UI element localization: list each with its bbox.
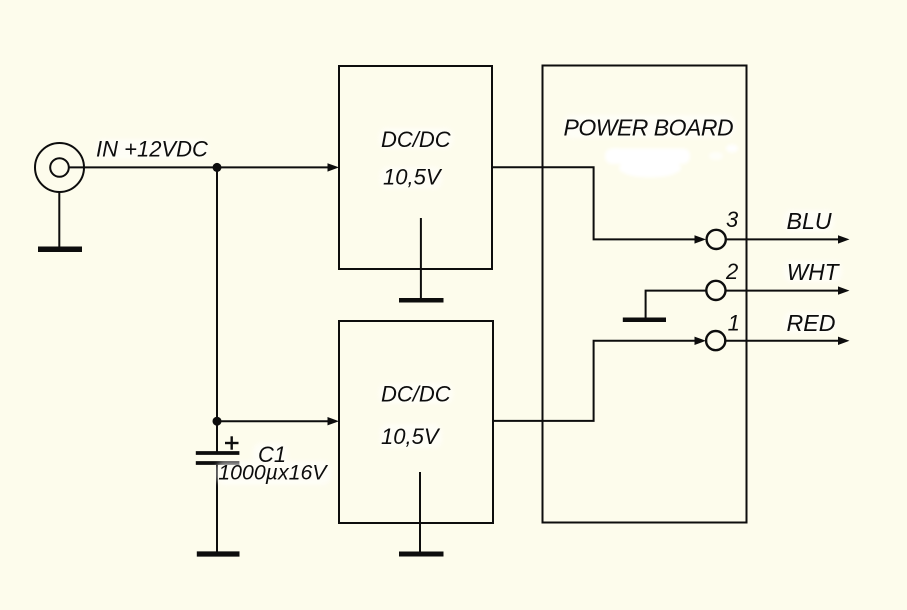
svg-text:BLU: BLU: [787, 208, 832, 234]
svg-text:10,5V: 10,5V: [383, 165, 443, 190]
svg-text:DC/DC: DC/DC: [381, 127, 451, 152]
svg-text:POWER BOARD: POWER BOARD: [564, 115, 734, 141]
svg-text:10,5V: 10,5V: [381, 424, 441, 449]
svg-text:1: 1: [728, 310, 740, 335]
svg-text:RED: RED: [787, 310, 836, 336]
svg-text:1000µx16V: 1000µx16V: [218, 461, 328, 485]
svg-text:WHT: WHT: [787, 259, 841, 285]
svg-text:2: 2: [725, 259, 738, 284]
svg-text:3: 3: [726, 207, 739, 232]
svg-text:IN +12VDC: IN +12VDC: [96, 137, 208, 162]
svg-text:DC/DC: DC/DC: [381, 382, 451, 407]
